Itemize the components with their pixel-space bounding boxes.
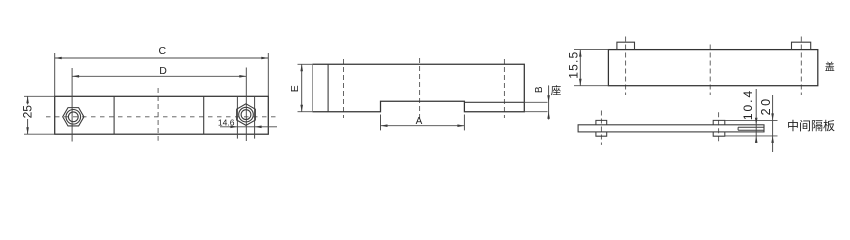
wire: internal vertical line of base <box>327 64 329 111</box>
body outline of strip <box>55 96 269 134</box>
dashed screw center line left <box>625 37 627 96</box>
dimension D line <box>72 75 246 78</box>
left hex nut <box>63 108 84 126</box>
svg-text:C: C <box>159 45 167 57</box>
wire: B extension line bottom <box>524 111 547 113</box>
partition plate outline <box>578 125 764 132</box>
wire: divider line left <box>113 96 115 134</box>
wire: extension line of 14.6 right <box>254 96 256 138</box>
left tab bottom <box>596 132 607 136</box>
dashed hole center line 2 <box>419 58 421 120</box>
dashed hole center line 1 <box>343 59 345 118</box>
wire: 15.5 extension line bottom <box>574 85 608 87</box>
wire: plate tongue top line <box>738 126 764 128</box>
svg-text:座: 座 <box>551 84 562 97</box>
cover body <box>608 50 817 86</box>
dimension 10.4 line <box>755 89 758 143</box>
svg-text:15.5: 15.5 <box>567 51 581 79</box>
svg-text:20: 20 <box>759 96 773 115</box>
cover right bump <box>792 42 811 49</box>
dimension B line <box>547 85 550 119</box>
node: left nut center line <box>71 68 73 142</box>
node: right nut center line <box>245 68 247 142</box>
dimension C line <box>55 57 269 60</box>
dashed screw center line right <box>800 37 802 96</box>
svg-text:E: E <box>289 85 301 92</box>
right tab bottom <box>713 132 725 136</box>
right hex nut <box>237 104 256 126</box>
dimension 14.6 line <box>220 126 277 129</box>
wire: 20 extension line top <box>725 119 778 121</box>
wire: E extension line top <box>298 63 313 65</box>
wire: lip top edge of base <box>464 101 524 103</box>
wire: horizontal dashed center line of strip <box>46 116 278 118</box>
wire: 15.5 extension line top <box>574 49 608 51</box>
wire: 20 extension line bottom <box>725 135 778 137</box>
wire: 25 extension line bottom <box>24 133 55 135</box>
dimension 15.5 line <box>579 50 582 86</box>
wire: B extension line top <box>524 101 547 103</box>
wire: extension line of 14.6 left <box>236 96 238 138</box>
label 25 <box>21 105 35 120</box>
wire: vertical dashed center line of strip <box>157 88 159 141</box>
svg-text:B: B <box>534 86 545 93</box>
svg-text:中间隔板: 中间隔板 <box>787 118 835 133</box>
dashed hole center line 3 <box>503 59 505 118</box>
dashed screw center line middle <box>709 45 711 96</box>
left tab top <box>596 120 607 124</box>
wire: 25 extension line top <box>24 95 55 97</box>
wire: A extension line left <box>380 115 382 131</box>
svg-text:A: A <box>416 116 423 127</box>
wire: A extension line right <box>463 115 465 131</box>
wire: plate tongue bottom line <box>738 129 764 131</box>
svg-text:14.6: 14.6 <box>218 117 235 127</box>
wire: base left edge <box>312 64 314 111</box>
svg-text:10.4: 10.4 <box>741 89 755 120</box>
svg-text:D: D <box>159 65 167 77</box>
wire: C extension line right <box>267 53 269 96</box>
base outline <box>313 64 525 111</box>
right tab top <box>713 120 725 124</box>
cover left bump <box>617 42 635 49</box>
dimension E line <box>300 64 303 111</box>
dimension A line <box>381 124 465 127</box>
wire: plate tongue left jog <box>737 127 739 130</box>
svg-text:25: 25 <box>21 105 35 119</box>
dashed rivet center line right <box>718 112 720 142</box>
wire: E extension line bottom <box>298 111 313 113</box>
dashed rivet center line left <box>600 111 602 145</box>
svg-text:盖: 盖 <box>825 60 835 73</box>
wire: C extension line left <box>54 53 56 96</box>
dimension 20 line <box>771 95 774 152</box>
dimension 25 line <box>26 96 29 134</box>
wire: divider line right <box>203 96 205 134</box>
